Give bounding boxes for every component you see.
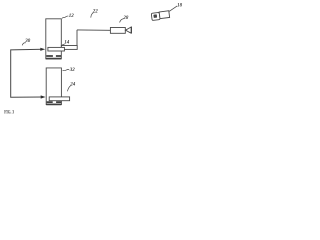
- pipe horizontal to nozzle: [77, 29, 110, 31]
- svg-text:12: 12: [69, 14, 75, 19]
- box 32 thick bottom: [46, 103, 61, 105]
- tray 24 in box 32: [49, 97, 69, 101]
- arrowhead into bottom box: [41, 95, 46, 98]
- svg-text:18: 18: [177, 4, 183, 9]
- label 12 leader squiggle: [62, 16, 68, 19]
- svg-text:FIG. 3: FIG. 3: [4, 110, 14, 115]
- label 30 leader: [22, 43, 26, 46]
- tray 14 in box 12: [48, 47, 65, 51]
- nozzle body 28: [110, 28, 125, 34]
- label 28 leader: [120, 19, 124, 23]
- wire left bracket feed line: [11, 49, 43, 97]
- svg-text:24: 24: [69, 83, 76, 88]
- housing: [159, 11, 169, 19]
- label 24 leader: [67, 86, 70, 92]
- svg-text:30: 30: [24, 39, 31, 44]
- motor block: [151, 12, 160, 20]
- svg-text:22: 22: [92, 9, 99, 14]
- box 32 (lower tank): [46, 68, 61, 105]
- box 32 inner gapped bar: [47, 101, 62, 103]
- label 18 leader line: [169, 6, 177, 11]
- label 22 leader: [91, 13, 94, 18]
- unit 16 tilted assembly: [151, 11, 169, 21]
- svg-text:28: 28: [122, 16, 128, 21]
- nozzle cone: [126, 27, 132, 33]
- nozzle cap: [130, 27, 132, 33]
- box 12 (upper tank): [46, 19, 62, 59]
- duct from tray to riser pipe: [61, 46, 77, 50]
- arrowhead into top box: [40, 48, 45, 51]
- label 14 leader squiggle: [62, 44, 65, 46]
- box 12 inner gapped bar: [46, 55, 61, 57]
- riser pipe vertical: [76, 30, 78, 46]
- motor core: [153, 14, 157, 18]
- svg-text:32: 32: [69, 68, 76, 73]
- label 32 leader squiggle: [63, 69, 70, 71]
- svg-text:14: 14: [64, 40, 70, 45]
- box 12 thick bottom: [46, 58, 62, 60]
